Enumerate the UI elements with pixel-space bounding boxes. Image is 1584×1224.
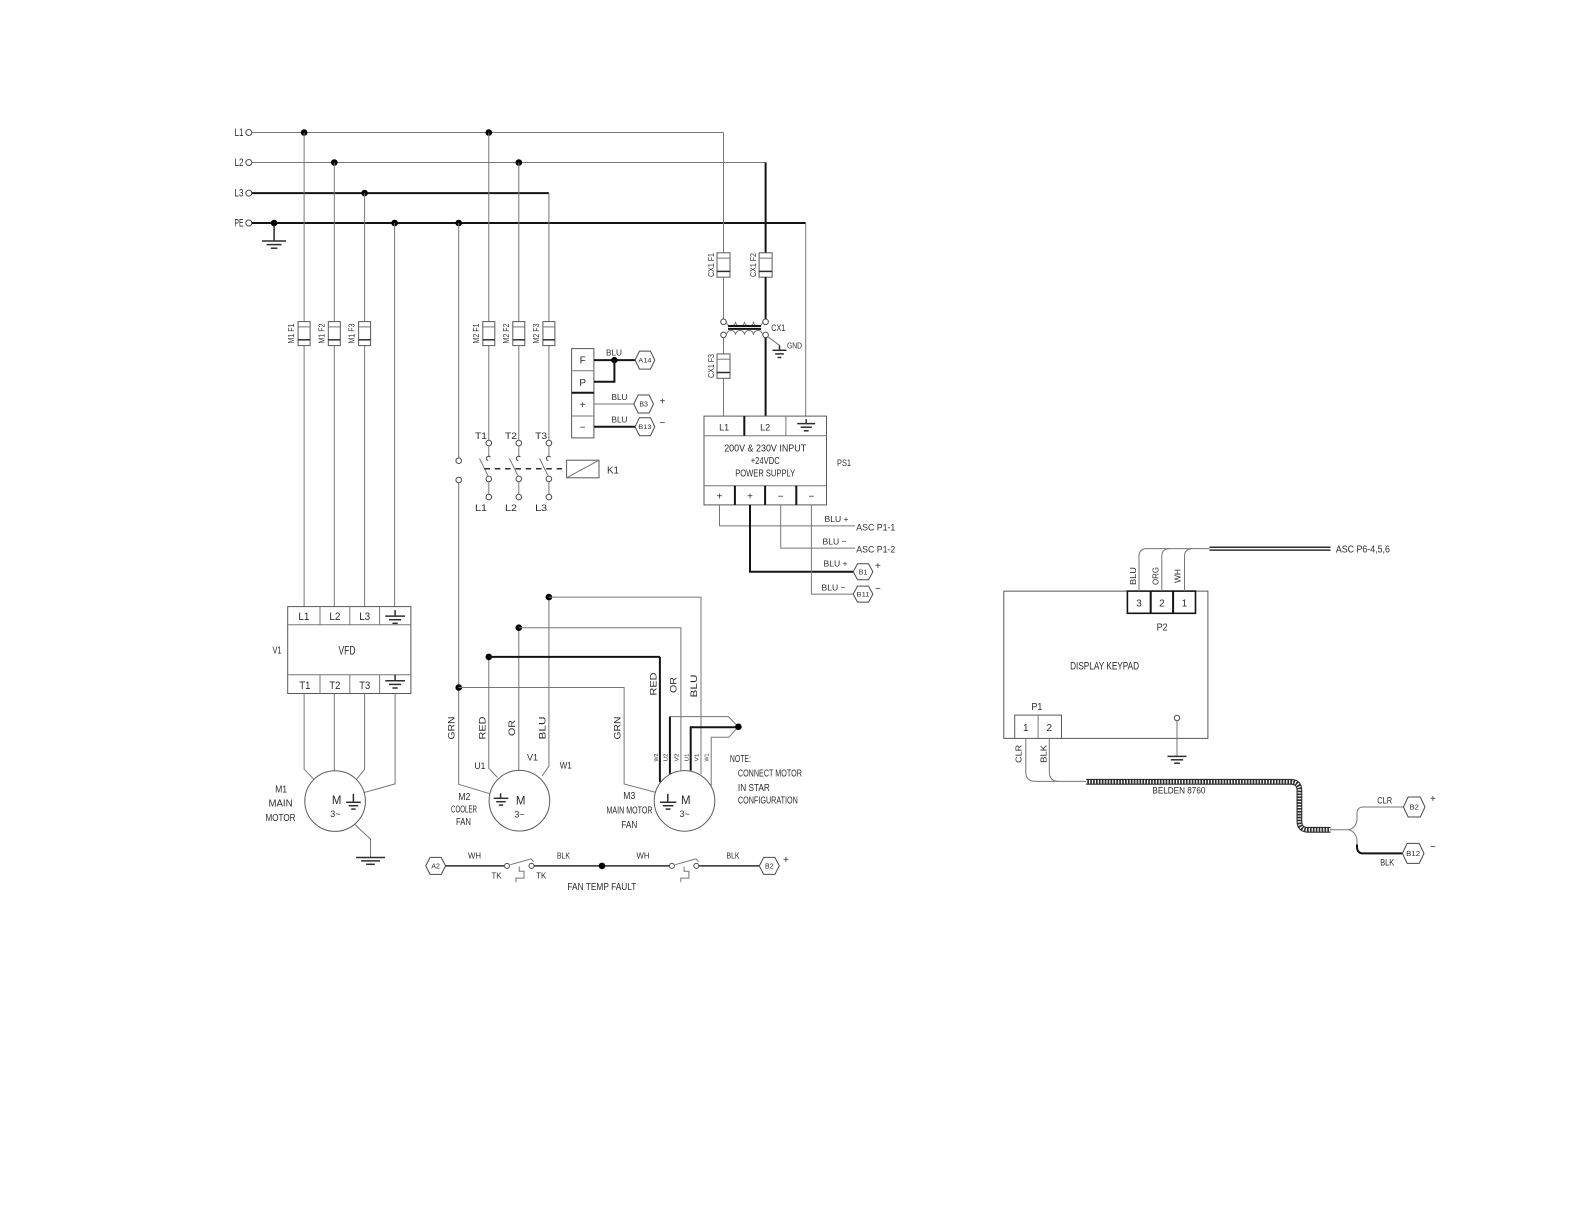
svg-text:BLU: BLU	[1128, 567, 1138, 585]
svg-text:POWER SUPPLY: POWER SUPPLY	[735, 468, 795, 479]
svg-text:W2: W2	[654, 754, 660, 762]
wire M2F2 to contact T2	[518, 346, 520, 441]
svg-text:BLU: BLU	[606, 347, 622, 357]
fuse M1F1	[287, 322, 310, 346]
svg-text:M1 F3: M1 F3	[348, 323, 357, 343]
svg-text:L1: L1	[298, 611, 309, 623]
hexagon B12	[1402, 843, 1424, 863]
wire PS -1 to ASC P1-2	[781, 505, 855, 548]
svg-text:L2: L2	[235, 157, 244, 169]
svg-text:200V & 230V INPUT: 200V & 230V INPUT	[724, 443, 806, 454]
node F-P junction	[611, 357, 617, 363]
wire P1-1 down	[1026, 738, 1059, 781]
svg-text:BLU +: BLU +	[824, 559, 848, 569]
wire TK2 to B2	[699, 865, 759, 867]
svg-text:CX1 F3: CX1 F3	[707, 354, 716, 378]
svg-text:A14: A14	[638, 358, 651, 365]
svg-text:T1: T1	[299, 680, 310, 692]
svg-text:B13: B13	[638, 424, 651, 431]
wire L3 to fuse M2F3	[548, 193, 550, 322]
svg-text:WH: WH	[1173, 569, 1183, 583]
terminal PE	[235, 218, 252, 230]
pin keypad ground	[1174, 715, 1179, 756]
ground M1 earth	[356, 858, 385, 865]
fuse M1F2	[317, 322, 340, 346]
wire RED to M3 vertical	[659, 657, 661, 782]
wire TK1 to junction	[534, 865, 669, 867]
wire PE branch upper	[458, 223, 460, 458]
wire VFD T2 to M1	[333, 694, 335, 771]
wire RED to M2 U1	[489, 657, 498, 778]
svg-text:PS1: PS1	[837, 458, 851, 468]
node BLU takeoff	[546, 594, 553, 601]
wire OR to M3	[519, 628, 681, 771]
wire L2 to fuse M1F2	[333, 163, 335, 322]
svg-text:3~: 3~	[680, 809, 690, 819]
svg-text:M2: M2	[458, 792, 470, 803]
svg-text:3: 3	[1136, 599, 1142, 610]
ground VFD output terminal	[385, 675, 405, 688]
svg-text:−: −	[808, 492, 814, 503]
svg-text:CLR: CLR	[1377, 795, 1392, 805]
svg-text:K1: K1	[607, 466, 619, 477]
wire L2 to fuse CX1F2	[765, 163, 767, 253]
wire M1F2 to VFD L2	[333, 346, 335, 607]
wire L2 bus	[252, 162, 766, 164]
svg-text:V2: V2	[674, 754, 680, 762]
svg-text:M1: M1	[275, 785, 287, 796]
svg-text:+: +	[1430, 794, 1436, 805]
svg-text:B12: B12	[1406, 851, 1420, 858]
wire L3 to fuse M1F3	[364, 193, 366, 322]
svg-text:ASC P1-1: ASC P1-1	[856, 522, 895, 532]
display keypad box	[1004, 591, 1208, 738]
svg-text:OR: OR	[668, 676, 678, 693]
svg-text:L1: L1	[475, 503, 487, 514]
svg-text:T2: T2	[329, 680, 340, 692]
svg-text:+: +	[783, 855, 789, 866]
node L1-M2F1 junction	[486, 129, 493, 136]
svg-text:ASC P6-4,5,6: ASC P6-4,5,6	[1336, 544, 1390, 555]
svg-text:B3: B3	[639, 402, 648, 409]
wire P jumper	[594, 360, 615, 382]
wire secondary to fuse CX1F3	[723, 338, 725, 354]
ground CX1 GND	[773, 345, 787, 357]
wire P1-2 down	[1049, 738, 1086, 781]
node L1-M1F1 junction	[301, 129, 308, 136]
svg-text:W1: W1	[705, 754, 711, 762]
wire P2-1 up	[1185, 549, 1193, 592]
svg-text:COOLER: COOLER	[451, 805, 477, 816]
node L2-M2F2 junction	[516, 159, 523, 166]
wire PE bus	[252, 222, 806, 224]
svg-text:FAN: FAN	[456, 817, 471, 828]
wire P2 bus	[1147, 548, 1210, 550]
svg-text:B11: B11	[857, 592, 870, 599]
wire BLU to M2 W1	[542, 597, 549, 776]
VFD V1 box	[288, 607, 411, 694]
svg-text:ASC P1-2: ASC P1-2	[856, 544, 895, 554]
node GRN takeoff	[455, 684, 462, 691]
wire L1 to fuse CX1F1	[723, 133, 725, 253]
wire M1 to earth	[355, 824, 371, 857]
svg-text:L1: L1	[235, 127, 244, 139]
svg-text:V1: V1	[273, 646, 282, 657]
svg-text:ORG: ORG	[1150, 567, 1160, 585]
svg-text:BLU: BLU	[612, 414, 628, 424]
svg-text:T2: T2	[505, 431, 517, 442]
fuse M2F1	[472, 322, 495, 346]
svg-text:CONFIGURATION: CONFIGURATION	[738, 796, 798, 807]
wire fork to B12	[1348, 830, 1402, 854]
ground keypad	[1168, 756, 1187, 763]
svg-text:+: +	[580, 400, 586, 411]
svg-text:−: −	[580, 423, 586, 434]
wire PE to VFD ground	[394, 223, 396, 607]
wire L1 to fuse M1F1	[303, 133, 305, 322]
transformer CX1	[721, 319, 786, 338]
svg-text:2: 2	[1159, 599, 1165, 610]
fuse CX1F3	[707, 354, 730, 379]
wire VFD T3 to M1	[357, 694, 365, 780]
hexagon B13	[635, 418, 655, 436]
svg-text:2: 2	[1047, 723, 1053, 734]
coil K1	[567, 460, 620, 478]
hexagon A2	[426, 857, 446, 874]
hexagon B3	[634, 395, 654, 413]
svg-text:WH: WH	[468, 851, 481, 861]
wire star W2	[711, 727, 738, 786]
svg-text:CX1: CX1	[771, 323, 785, 334]
wire PS -2 to B11	[811, 505, 853, 594]
svg-text:L2: L2	[760, 422, 770, 433]
svg-text:RED: RED	[649, 672, 659, 696]
svg-text:TK: TK	[536, 870, 546, 880]
wire secondary to PS L2	[765, 338, 767, 416]
hexagon B11	[853, 586, 873, 602]
ground VFD input terminal	[385, 610, 405, 623]
wire PE to PS ground	[805, 223, 807, 416]
svg-text:+: +	[660, 396, 666, 407]
svg-text:CONNECT MOTOR: CONNECT MOTOR	[738, 769, 802, 780]
svg-text:DISPLAY KEYPAD: DISPLAY KEYPAD	[1070, 661, 1139, 673]
svg-text:BELDEN 8760: BELDEN 8760	[1152, 785, 1205, 796]
terminal L2	[235, 157, 252, 169]
svg-text:PE: PE	[235, 218, 244, 230]
svg-text:B2: B2	[765, 863, 774, 870]
node fan fault junction	[599, 863, 606, 870]
svg-text:F: F	[580, 356, 586, 367]
wire star U2	[670, 717, 739, 774]
node star point	[735, 724, 742, 731]
label M3 MAIN MOTOR FAN	[607, 791, 653, 831]
svg-text:BLU −: BLU −	[822, 583, 846, 593]
wire cable tail	[1331, 829, 1349, 831]
svg-text:GRN: GRN	[612, 717, 622, 740]
svg-text:L3: L3	[535, 503, 547, 514]
wire VFD ground to M1	[364, 694, 396, 793]
wire CX1F2 to primary	[765, 277, 767, 319]
wire CX1F3 to PS L1	[723, 378, 725, 416]
fuse M2F3	[532, 322, 555, 346]
connector PE plug upper	[456, 458, 462, 464]
svg-text:MOTOR: MOTOR	[266, 813, 296, 824]
svg-text:1: 1	[1182, 599, 1188, 610]
wire L1 bus	[252, 132, 724, 134]
hexagon B2 (fan fault)	[759, 857, 779, 874]
svg-text:BLK: BLK	[1039, 745, 1049, 763]
node OR takeoff	[516, 624, 523, 631]
label M1 MAIN MOTOR	[266, 785, 296, 825]
svg-text:U2: U2	[664, 754, 670, 762]
svg-text:M2 F3: M2 F3	[532, 323, 541, 343]
svg-text:BLU: BLU	[612, 392, 628, 402]
svg-text:A2: A2	[431, 863, 440, 870]
svg-text:NOTE:: NOTE:	[730, 754, 751, 765]
wire PE-GRN to M2	[459, 688, 490, 794]
svg-text:1: 1	[1023, 723, 1029, 734]
wire L1 to fuse M2F1	[488, 133, 490, 322]
wire VFD T1 to M1	[304, 694, 314, 780]
terminal L1	[235, 127, 252, 139]
wire OR into M3	[680, 769, 682, 771]
svg-text:M1 F2: M1 F2	[317, 323, 326, 343]
label M2 COOLER FAN	[451, 792, 477, 828]
svg-text:−: −	[660, 418, 666, 429]
svg-text:+: +	[875, 561, 881, 572]
svg-text:L2: L2	[505, 503, 517, 514]
svg-text:T1: T1	[475, 431, 487, 442]
wire L2 to fuse M2F2	[518, 163, 520, 322]
svg-text:CLR: CLR	[1014, 745, 1024, 763]
node L3-M1F3 junction	[361, 190, 368, 197]
svg-text:B1: B1	[859, 569, 868, 576]
svg-text:FAN: FAN	[621, 820, 637, 831]
wire OR to M2 V1	[518, 628, 520, 771]
node PE-branch junction	[455, 220, 462, 227]
svg-text:V1: V1	[694, 754, 700, 762]
power supply PS1 box	[704, 416, 827, 505]
motor M2	[489, 770, 550, 831]
svg-text:W1: W1	[560, 761, 572, 771]
svg-text:L1: L1	[719, 422, 729, 433]
svg-text:P: P	[579, 378, 586, 389]
svg-text:B2: B2	[1410, 803, 1419, 812]
wire P2-2 up	[1162, 549, 1170, 592]
wire BLU into M3	[700, 773, 702, 775]
svg-text:+24VDC: +24VDC	[751, 456, 780, 467]
node PE-earth junction	[271, 220, 278, 227]
svg-text:BLK: BLK	[727, 851, 740, 861]
contactor K1 pole T1-L1	[475, 431, 492, 514]
svg-text:BLK: BLK	[557, 851, 570, 861]
svg-text:M: M	[332, 795, 342, 807]
svg-text:MAIN MOTOR: MAIN MOTOR	[607, 805, 653, 816]
terminal block F P + -	[572, 349, 594, 438]
thermal contact TK1	[492, 859, 547, 882]
wire star V2	[691, 727, 739, 771]
svg-text:3~: 3~	[330, 809, 340, 819]
wire PS +2 to B1	[750, 505, 853, 572]
wire M2F1 to contact T1	[488, 346, 490, 441]
svg-text:T3: T3	[535, 431, 547, 442]
svg-text:−: −	[778, 492, 784, 503]
connector P2	[1127, 591, 1195, 613]
svg-text:M2 F1: M2 F1	[472, 323, 481, 343]
wire + to B3	[594, 403, 634, 405]
svg-text:BLK: BLK	[1380, 857, 1394, 867]
svg-text:P1: P1	[1031, 702, 1042, 713]
svg-text:WH: WH	[637, 851, 650, 861]
wire PS +1 to ASC P1-1	[720, 505, 856, 526]
svg-text:BLU: BLU	[689, 675, 699, 698]
connector P1	[1015, 715, 1062, 738]
svg-text:3~: 3~	[514, 810, 524, 820]
wire BLU to M3	[549, 597, 701, 774]
terminal L3	[235, 188, 252, 200]
wire P2-3 up	[1139, 549, 1147, 592]
motor M3	[654, 771, 715, 832]
fuse CX1F1	[707, 253, 730, 278]
svg-text:CX1 F1: CX1 F1	[707, 253, 716, 277]
wire K1 linkage dashed	[485, 468, 567, 470]
svg-text:MAIN: MAIN	[269, 799, 293, 810]
node RED takeoff	[486, 654, 493, 661]
wire M1F3 to VFD L3	[364, 346, 366, 607]
fuse M1F3	[348, 322, 371, 346]
wire CX1F1 to primary	[723, 277, 725, 319]
wire A2 to TK switch 1	[446, 865, 505, 867]
svg-text:M: M	[681, 795, 691, 807]
svg-text:U1: U1	[474, 761, 485, 771]
svg-text:BLU: BLU	[537, 717, 547, 740]
svg-text:GND: GND	[787, 340, 802, 350]
thermal contact TK2	[669, 859, 698, 882]
connector PE plug lower	[456, 477, 462, 483]
svg-text:+: +	[717, 492, 723, 503]
wire F to A14	[594, 359, 635, 361]
ground PS1 input	[797, 419, 815, 431]
wire fork to B2	[1348, 807, 1403, 830]
cable ASC P6 double line	[1210, 547, 1331, 550]
svg-text:−: −	[1430, 842, 1436, 853]
contactor K1 pole T2-L2	[505, 431, 522, 514]
svg-text:−: −	[875, 584, 881, 595]
svg-text:M1 F1: M1 F1	[287, 323, 296, 343]
node PE-VFD junction	[391, 220, 398, 227]
fuse M2F2	[502, 322, 525, 346]
svg-text:U1: U1	[684, 754, 690, 762]
svg-text:T3: T3	[359, 680, 370, 692]
svg-text:M3: M3	[623, 791, 635, 802]
svg-text:OR: OR	[507, 719, 517, 736]
wire RED to M3 horizontal	[489, 656, 660, 658]
node L2-M1F2 junction	[331, 159, 338, 166]
svg-text:TK: TK	[492, 870, 502, 880]
svg-text:V1: V1	[527, 753, 538, 763]
wire M2F3 to contact T3	[548, 346, 550, 441]
svg-text:GRN: GRN	[447, 717, 457, 740]
cable BELDEN 8760 shield	[1086, 782, 1330, 830]
hexagon B1	[853, 564, 873, 580]
svg-text:M: M	[516, 796, 526, 808]
hexagon A14	[635, 351, 655, 369]
motor M1	[305, 771, 366, 832]
hexagon B2 (keypad)	[1403, 797, 1425, 817]
svg-text:BLU −: BLU −	[823, 536, 847, 546]
wire L3 bus	[252, 192, 549, 194]
svg-text:M2 F2: M2 F2	[502, 323, 511, 343]
svg-text:L3: L3	[359, 611, 370, 623]
contactor K1 pole T3-L3	[535, 431, 552, 514]
svg-text:BLU +: BLU +	[825, 514, 849, 524]
wire GRN to M3	[459, 688, 655, 793]
svg-text:+: +	[747, 492, 753, 503]
svg-text:IN STAR: IN STAR	[738, 783, 770, 794]
wire PE branch lower	[458, 483, 460, 688]
wire CX1 secondary to GND	[768, 337, 780, 346]
svg-text:VFD: VFD	[339, 643, 356, 657]
svg-text:FAN TEMP FAULT: FAN TEMP FAULT	[567, 881, 636, 893]
note text block	[730, 754, 802, 807]
wire M1F1 to VFD L1	[303, 346, 305, 607]
ground PE earth	[262, 225, 286, 248]
svg-text:CX1 F2: CX1 F2	[749, 253, 758, 277]
wire - to B13	[594, 426, 635, 428]
svg-text:P2: P2	[1157, 623, 1168, 634]
svg-text:RED: RED	[478, 716, 488, 740]
svg-text:L2: L2	[329, 611, 340, 623]
fuse CX1F2	[749, 253, 772, 278]
svg-text:L3: L3	[235, 188, 244, 200]
